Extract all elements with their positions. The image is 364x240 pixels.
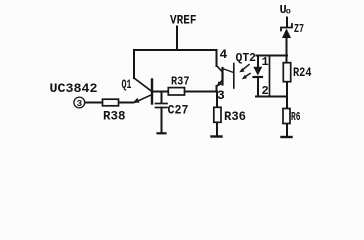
svg-text:R36: R36 xyxy=(224,109,246,124)
svg-text:R24: R24 xyxy=(293,66,312,80)
svg-text:4: 4 xyxy=(220,47,228,62)
svg-text:R38: R38 xyxy=(103,109,126,124)
svg-text:R6: R6 xyxy=(291,110,301,124)
svg-text:3: 3 xyxy=(76,98,82,109)
svg-text:Q1: Q1 xyxy=(122,78,132,92)
svg-text:3: 3 xyxy=(217,88,225,103)
svg-text:QT2: QT2 xyxy=(236,51,257,65)
svg-text:1: 1 xyxy=(262,55,269,69)
svg-text:Z7: Z7 xyxy=(294,22,304,36)
svg-text:C27: C27 xyxy=(168,103,189,117)
svg-text:o: o xyxy=(286,7,291,17)
svg-text:VREF: VREF xyxy=(170,14,197,28)
svg-text:UC3842: UC3842 xyxy=(50,81,98,96)
svg-text:2: 2 xyxy=(262,84,269,98)
svg-text:R37: R37 xyxy=(171,75,190,88)
